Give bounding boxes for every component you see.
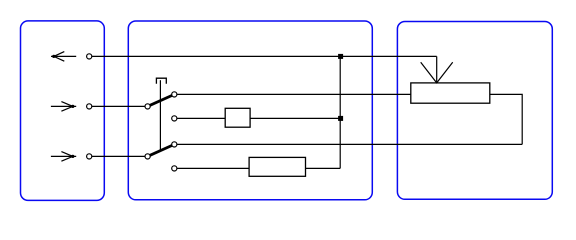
block box B1 (source block) (21, 21, 105, 201)
wire: S2 throw a to potentiometer right lead (177, 143, 522, 145)
switch S2 blade (150, 146, 172, 156)
potentiometer P1 body (411, 83, 490, 103)
block box B2 (switch block) (128, 21, 372, 200)
switch S1 throw contact a (172, 92, 177, 97)
signal arrow A3 (right-pointing) (51, 152, 76, 162)
switch S1 pole contact (145, 104, 150, 109)
block box B3 (potentiometer block) (397, 22, 552, 200)
switch S2 throw contact a (172, 142, 177, 147)
switch linkage bracket (156, 78, 166, 84)
potentiometer wiper lead (vertical) (436, 56, 438, 83)
switch linkage rod (159, 80, 161, 150)
wire: S1 throw a to potentiometer left terminal (177, 93, 411, 95)
signal arrow A1 (left-pointing) (51, 52, 76, 62)
junction dot D2 (338, 116, 343, 121)
wire: collector vertical (339, 56, 341, 168)
component K2 (large box) (249, 157, 305, 176)
switch S2 throw contact b (172, 166, 177, 171)
wire: S2 throw b to component K2 (177, 167, 249, 169)
junction dot D1 (338, 54, 343, 59)
terminal T2 (87, 104, 92, 109)
wire: S1 throw b to component K1 (177, 117, 225, 119)
terminal T1 (87, 54, 92, 59)
wire: T2 to switch S1 pole (92, 105, 145, 107)
component K1 (small box) (225, 108, 250, 127)
signal arrow A2 (right-pointing) (51, 102, 76, 112)
switch S1 blade (150, 96, 172, 106)
potentiometer wiper arrow (421, 62, 453, 83)
wire: potentiometer right terminal down to feedback line (490, 94, 522, 144)
wire: T3 to switch S2 pole (92, 155, 145, 157)
terminal T3 (87, 154, 92, 159)
switch S2 pole contact (145, 154, 150, 159)
wire: K1 to junction D2 (250, 117, 340, 119)
switch S1 throw contact b (172, 116, 177, 121)
wire: K2 to collector vertical (306, 167, 341, 169)
wire net 1: T1 to wiper corner (92, 55, 437, 57)
